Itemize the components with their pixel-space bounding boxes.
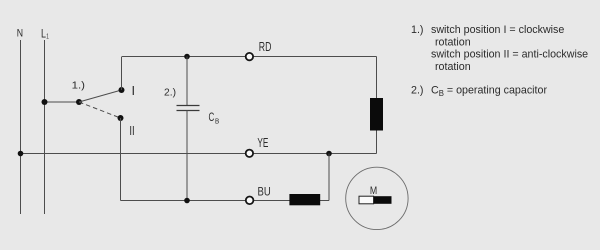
motor rotor symbol white half — [359, 196, 374, 204]
svg-text:BU: BU — [258, 184, 271, 198]
svg-text:N: N — [17, 28, 23, 40]
wire contact II down — [120, 118, 122, 201]
svg-text:2.): 2.) — [164, 87, 176, 99]
svg-text:II: II — [129, 124, 134, 138]
junction capacitor top — [184, 54, 190, 60]
junction YE-BU — [326, 151, 332, 157]
terminal BU — [246, 197, 254, 205]
svg-text:CB = operating capacitor: CB = operating capacitor — [431, 85, 547, 98]
capacitor CB plates — [177, 105, 200, 107]
svg-text:1.): 1.) — [411, 24, 423, 36]
junction on L1 — [42, 99, 48, 105]
wire main winding bottom lead — [376, 131, 378, 154]
junction capacitor bottom — [184, 198, 190, 204]
svg-text:1.): 1.) — [72, 79, 85, 91]
wire top rail — [122, 56, 377, 58]
svg-text:1: 1 — [46, 32, 49, 41]
svg-text:rotation: rotation — [435, 36, 471, 48]
svg-text:M: M — [370, 185, 377, 197]
wire N vertical — [20, 40, 22, 214]
terminal RD — [246, 53, 253, 60]
switch S1 pivot — [76, 99, 82, 105]
switch contact I — [119, 87, 125, 93]
wire switch feed — [45, 101, 80, 103]
motor M1 circle — [346, 167, 408, 229]
junction on N — [18, 151, 24, 157]
svg-text:2.): 2.) — [411, 85, 423, 97]
wire BU rail — [121, 200, 330, 202]
svg-text:B: B — [215, 117, 219, 126]
switch S1 blade solid to I — [79, 90, 122, 102]
svg-text:switch position II = anti-cloc: switch position II = anti-clockwise — [431, 49, 588, 61]
terminal YE — [246, 150, 253, 157]
wire YE rail — [21, 153, 377, 155]
wire capacitor top lead — [186, 57, 188, 106]
svg-text:I: I — [132, 83, 136, 98]
motor rotor symbol black half — [374, 196, 392, 204]
main winding U — [370, 98, 383, 131]
svg-text:RD: RD — [259, 39, 272, 54]
wire contact I up — [121, 57, 123, 90]
switch contact II — [118, 115, 124, 121]
wire L1 vertical — [44, 40, 46, 214]
svg-text:rotation: rotation — [435, 61, 471, 73]
wire BU up to junction — [328, 154, 330, 201]
wire capacitor bottom lead — [186, 111, 188, 201]
wire main winding top lead — [376, 57, 378, 99]
auxiliary winding Z — [289, 194, 320, 205]
svg-text:switch position I = clockwise: switch position I = clockwise — [431, 24, 564, 36]
svg-text:YE: YE — [257, 136, 268, 150]
switch S1 blade dashed to II — [79, 102, 121, 118]
svg-text:C: C — [209, 111, 215, 124]
